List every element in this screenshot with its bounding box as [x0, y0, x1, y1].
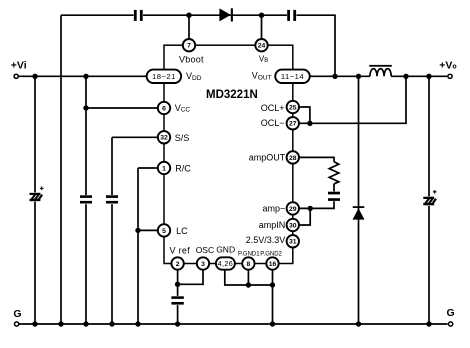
svg-text:6: 6 [162, 105, 166, 112]
svg-text:OSC: OSC [196, 245, 214, 255]
svg-text:16: 16 [269, 261, 277, 268]
svg-text:+Vi: +Vi [11, 59, 27, 71]
svg-text:LC: LC [176, 226, 188, 236]
svg-text:G: G [447, 307, 455, 319]
svg-text:11~14: 11~14 [281, 72, 304, 81]
svg-text:31: 31 [289, 239, 297, 246]
svg-text:27: 27 [289, 121, 297, 128]
svg-text:VDD: VDD [186, 71, 202, 82]
svg-text:ampOUT: ampOUT [249, 153, 286, 163]
svg-text:MD3221N: MD3221N [206, 89, 258, 101]
svg-text:4,26: 4,26 [218, 259, 234, 268]
svg-text:G: G [13, 308, 21, 320]
svg-text:25: 25 [289, 104, 297, 111]
svg-text:VCC: VCC [175, 103, 191, 114]
svg-text:29: 29 [289, 206, 297, 213]
svg-text:1: 1 [162, 165, 166, 172]
svg-text:32: 32 [160, 135, 168, 142]
svg-text:VB: VB [259, 55, 268, 65]
svg-text:R/C: R/C [175, 164, 191, 174]
svg-text:ampIN: ampIN [259, 220, 286, 230]
svg-text:2.5V/3.3V: 2.5V/3.3V [246, 235, 286, 245]
svg-text:S/S: S/S [175, 133, 190, 143]
svg-text:amp−: amp− [263, 203, 286, 213]
svg-text:24: 24 [258, 43, 266, 50]
svg-text:V ref: V ref [170, 245, 191, 255]
svg-text:28: 28 [289, 155, 297, 162]
svg-text:P.GND1: P.GND1 [238, 251, 260, 257]
svg-text:Vboot: Vboot [179, 54, 204, 64]
svg-text:OCL+: OCL+ [261, 103, 285, 113]
svg-text:5: 5 [162, 228, 166, 235]
svg-text:P.GND2: P.GND2 [260, 251, 282, 257]
svg-text:8: 8 [247, 261, 251, 268]
svg-text:18~21: 18~21 [152, 72, 176, 81]
svg-text:30: 30 [289, 222, 297, 229]
svg-text:VOUT: VOUT [252, 71, 272, 82]
svg-text:+Vo: +Vo [439, 60, 456, 72]
svg-text:2: 2 [176, 261, 180, 268]
svg-text:7: 7 [187, 43, 191, 50]
svg-text:GND: GND [216, 244, 235, 254]
svg-text:OCL−: OCL− [261, 118, 285, 128]
svg-text:3: 3 [201, 261, 205, 268]
